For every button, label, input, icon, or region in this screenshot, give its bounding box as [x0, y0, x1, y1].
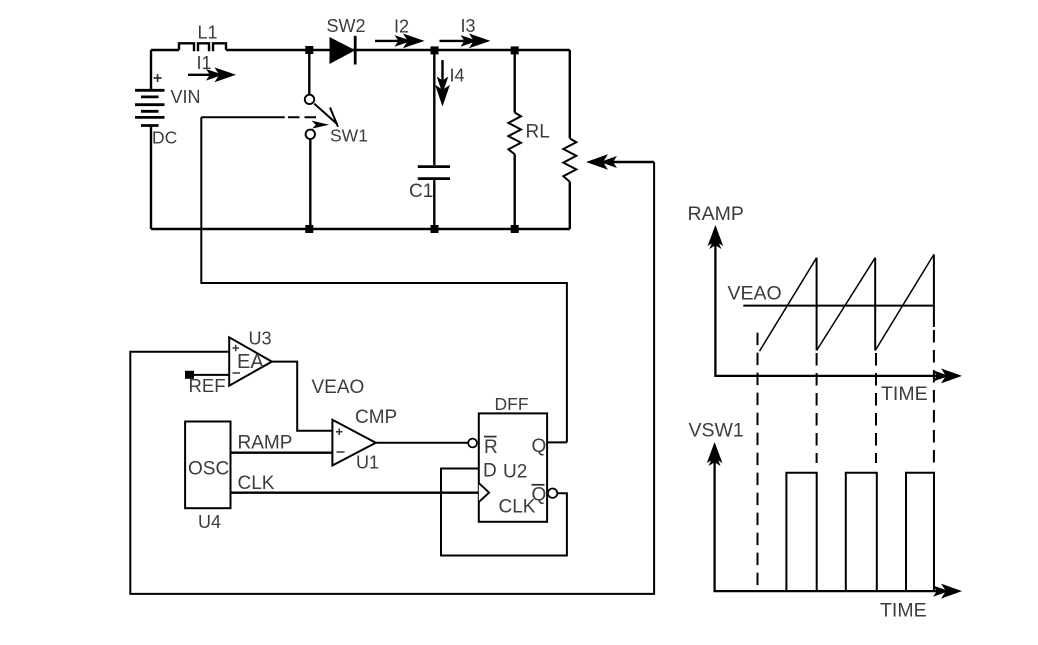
svg-text:VIN: VIN [171, 87, 201, 107]
node B (C1 junction) [431, 46, 439, 54]
svg-text:I2: I2 [394, 17, 409, 37]
current arrow I2 [375, 34, 425, 49]
current arrow I3 [440, 34, 491, 49]
REF terminal [185, 371, 229, 379]
oscillator box U4 [185, 422, 230, 509]
svg-text:DFF: DFF [495, 394, 529, 414]
svg-text:CLK: CLK [238, 473, 275, 494]
svg-text:SW1: SW1 [330, 126, 368, 146]
node C (RL junction) [511, 46, 519, 54]
node A (diode anode junction) [305, 46, 313, 54]
SW1 control dashed wire [201, 116, 284, 118]
comparator U1 [332, 420, 375, 466]
battery VIN DC [135, 50, 165, 229]
svg-text:U1: U1 [356, 453, 379, 473]
svg-text:VEAO: VEAO [728, 283, 782, 305]
node E (bottom rail C1) [431, 225, 439, 233]
svg-text:R: R [484, 437, 498, 458]
op-amp U3 error amplifier [229, 337, 272, 385]
capacitor C1 [418, 167, 450, 229]
VEAO wire [272, 362, 333, 431]
svg-text:SW2: SW2 [327, 16, 366, 36]
dashed timing line t3 [933, 330, 935, 463]
svg-text:OSC: OSC [188, 459, 229, 480]
feedback wire loop to EA [130, 162, 654, 594]
svg-text:Q: Q [532, 436, 547, 457]
VEAO level line [743, 305, 934, 307]
CMP output wire [376, 442, 469, 444]
svg-text:U3: U3 [249, 329, 272, 349]
svg-text:DC: DC [152, 128, 177, 148]
svg-text:CMP: CMP [355, 407, 397, 428]
svg-text:RAMP: RAMP [688, 203, 744, 225]
dashed timing line t2 [875, 353, 877, 463]
top rail wire [151, 49, 570, 51]
Qbar to D feedback wire [441, 469, 567, 556]
R input bubble [468, 439, 477, 448]
bottom rail wire [151, 228, 570, 230]
current arrow I4 [435, 60, 450, 106]
svg-text:U4: U4 [198, 512, 221, 532]
svg-text:I4: I4 [450, 66, 465, 86]
RAMP plot axes [708, 225, 962, 383]
inductor L1 [179, 43, 226, 51]
svg-text:U2: U2 [503, 462, 527, 483]
svg-text:RL: RL [526, 122, 550, 143]
wiper arrow into divider [586, 154, 654, 170]
CLK wire [231, 492, 479, 494]
svg-text:VEAO: VEAO [312, 377, 365, 398]
svg-text:C1: C1 [409, 181, 433, 202]
svg-text:EA: EA [237, 351, 264, 373]
svg-text:TIME: TIME [881, 383, 928, 405]
wire C1 branch [433, 50, 435, 165]
sawtooth ramp waveform [760, 254, 934, 351]
dashed timing line t0 [757, 333, 759, 589]
dashed timing line t1 [816, 353, 818, 463]
switch SW1 [305, 50, 338, 229]
svg-text:TIME: TIME [880, 600, 927, 622]
svg-text:L1: L1 [198, 22, 218, 42]
RAMP wire [231, 452, 333, 454]
current arrow I1 [188, 67, 236, 82]
svg-text:RAMP: RAMP [238, 433, 293, 454]
svg-text:CLK: CLK [499, 497, 536, 518]
square pulse waveform [786, 473, 934, 591]
svg-text:D: D [483, 460, 497, 481]
resistor R feedback divider [563, 50, 576, 229]
svg-text:REF: REF [189, 375, 226, 396]
node D (bottom rail SW1) [305, 225, 313, 233]
svg-text:VSW1: VSW1 [689, 420, 744, 442]
svg-text:I3: I3 [461, 16, 476, 36]
diode SW2 [330, 36, 356, 65]
node F (bottom rail RL) [511, 225, 519, 233]
control wire from DFF Q to SW1 [201, 117, 567, 442]
svg-text:I1: I1 [197, 53, 212, 73]
VSW1 plot axes [707, 442, 962, 599]
D flip-flop U2 [479, 413, 558, 521]
Q output wire [547, 441, 567, 443]
resistor RL [508, 50, 521, 229]
